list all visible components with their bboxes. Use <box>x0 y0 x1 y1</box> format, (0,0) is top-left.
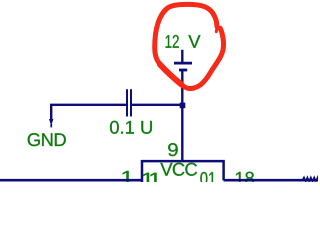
annotation: red hand-drawn circle around 12V <box>155 4 224 88</box>
junction node <box>180 103 186 109</box>
wire: pin 1 wire to left edge <box>0 179 142 182</box>
power net label 12 V <box>166 35 179 48</box>
wire: horizontal decoupling wire from GND corner to junction <box>51 105 182 122</box>
wire: VCC pin wire from junction to IC <box>181 105 183 161</box>
pin name VCC <box>160 163 197 176</box>
power port 12V battery symbol <box>174 50 192 105</box>
wire: pin 18 wire to resistor <box>224 179 319 182</box>
annotation: red stroke thicker bottom-left segment <box>160 65 182 85</box>
pin 1 number <box>122 171 133 184</box>
annotation: red stroke tapered end tip <box>215 26 219 32</box>
capacitor C1 plates <box>127 89 131 116</box>
IC U1 body outline (top edge, clipped at bottom) <box>142 161 224 182</box>
capacitor C1 value 0.1 U <box>110 121 152 134</box>
pin 9 number <box>168 143 178 156</box>
ground <box>49 119 53 127</box>
resistor R? zigzag (clipped by image edge) <box>302 177 318 181</box>
pin 18 number <box>236 172 254 185</box>
pin name 11 <box>142 173 160 186</box>
pin name 01 <box>200 172 215 185</box>
GND net label <box>28 133 66 146</box>
